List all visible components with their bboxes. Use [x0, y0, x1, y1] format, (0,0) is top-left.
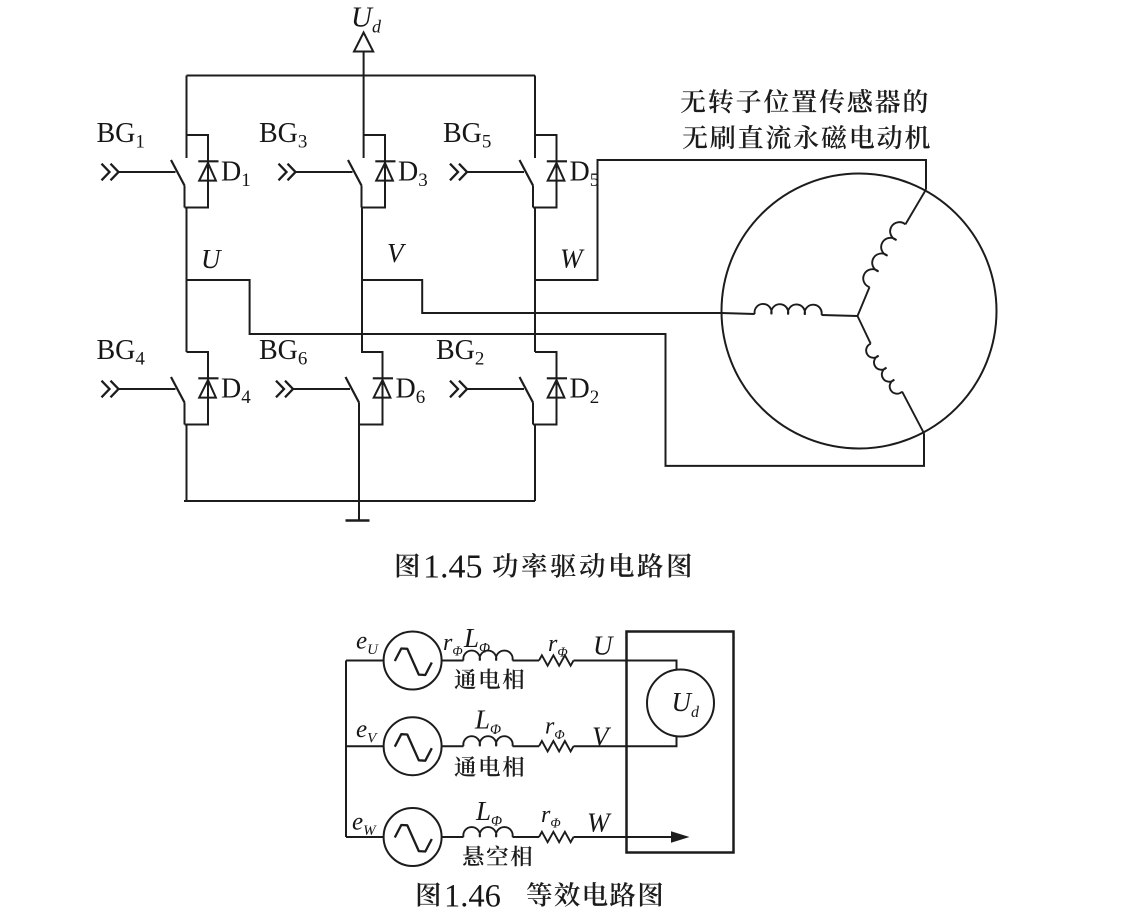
wire phase W from bridge to motor	[535, 160, 926, 280]
wire leg U upper (top rail to BG1)	[186, 76, 188, 159]
wire leg W middle, node W	[534, 208, 536, 353]
wire inductor to resistor W	[513, 836, 540, 838]
Ud input arrow (open triangle)	[354, 33, 373, 52]
gate drive chevron of BG3	[279, 164, 296, 181]
gate drive chevron of BG1	[102, 164, 119, 181]
transistor BG4 (switch-style symbol)	[171, 377, 185, 425]
wire bus to source eV	[346, 745, 384, 747]
wire bus to source eU	[346, 660, 384, 662]
wire U row into box to Ud	[574, 661, 677, 671]
diode D6	[373, 378, 393, 397]
wire source to inductor U	[442, 660, 464, 662]
diode D3	[375, 161, 395, 180]
DC source Ud circle	[647, 670, 714, 737]
wire leg U lower (BG4 to bottom rail)	[186, 425, 188, 502]
diode D2	[547, 378, 567, 397]
wire W row with arrow head	[574, 836, 674, 838]
ground symbol	[346, 519, 370, 521]
motor winding U (lower right)	[858, 316, 925, 433]
wire leg V middle, node V	[361, 208, 363, 353]
transistor BG1 (switch-style symbol)	[171, 160, 185, 208]
wire freewheel diode branch of BG5	[533, 135, 557, 208]
transistor BG2 (switch-style symbol)	[520, 377, 534, 425]
motor circle (brushless DC motor)	[722, 174, 997, 449]
wire leg W upper (top rail to BG5)	[534, 76, 536, 159]
AC source eU (circle with wave)	[384, 632, 442, 690]
wire bottom rail	[184, 500, 535, 502]
resistor r-phi U (zigzag)	[539, 655, 574, 665]
wire gate drive lead of BG6	[293, 388, 350, 390]
wire gate drive lead of BG4	[119, 388, 176, 390]
resistor r-phi W (zigzag)	[539, 832, 574, 842]
wire Ud down to rail and BG3	[363, 52, 365, 159]
wire gate drive lead of BG3	[296, 171, 353, 173]
wire source to inductor V	[442, 745, 464, 747]
svg-text:W: W	[587, 808, 612, 838]
caption figure 1.45	[397, 553, 419, 577]
diode D4	[198, 378, 218, 397]
text energized phase V row	[455, 756, 524, 777]
wire top DC rail	[187, 75, 536, 77]
text motor title line 1	[681, 89, 928, 113]
wire phase V from bridge to motor	[362, 280, 722, 313]
wire gate drive lead of BG2	[467, 388, 524, 390]
wire freewheel diode branch of BG2	[533, 352, 557, 425]
text floating phase W row	[463, 845, 532, 866]
wire inductor to resistor V	[513, 745, 540, 747]
wire source to inductor W	[442, 836, 464, 838]
AC source eW (circle with wave)	[384, 808, 442, 866]
AC source eV (circle with wave)	[384, 717, 442, 775]
transistor BG5 (switch-style symbol)	[520, 160, 534, 208]
transistor BG6 (switch-style symbol)	[346, 377, 360, 425]
diode D1	[198, 161, 218, 180]
wire freewheel diode branch of BG3	[362, 135, 386, 208]
text energized phase U row	[455, 668, 524, 689]
wire freewheel diode branch of BG4	[185, 352, 209, 425]
wire freewheel diode branch of BG1	[185, 135, 209, 208]
motor winding V (left horizontal)	[722, 304, 858, 316]
wire leg V lower (BG6 to bottom rail and ground)	[358, 425, 360, 522]
load box rectangle	[627, 632, 734, 853]
inductor L-phi V	[463, 736, 512, 746]
transistor BG3 (switch-style symbol)	[348, 160, 362, 208]
wire phase U from bridge to motor	[187, 280, 925, 466]
inductor L-phi W	[463, 827, 512, 837]
text motor title line 2	[683, 125, 930, 149]
inductor L-phi U	[463, 651, 512, 661]
resistor r-phi V (zigzag)	[539, 741, 574, 751]
diode D5	[547, 161, 567, 180]
gate drive chevron of BG4	[102, 381, 119, 398]
wire gate drive lead of BG1	[119, 171, 176, 173]
svg-text:W: W	[560, 244, 585, 274]
gate drive chevron of BG2	[450, 381, 467, 398]
wire V row into box to Ud	[574, 737, 677, 747]
wire leg W lower (BG2 to bottom rail)	[534, 425, 536, 502]
svg-text:1.46: 1.46	[444, 879, 501, 915]
caption figure 1.46	[418, 882, 440, 906]
svg-text:U: U	[201, 244, 222, 274]
wire leg U middle, node U	[186, 208, 188, 353]
wire gate drive lead of BG5	[467, 171, 524, 173]
svg-text:1.45: 1.45	[423, 549, 483, 586]
wire bus to source eW	[346, 836, 384, 838]
gate drive chevron of BG5	[450, 164, 467, 181]
wire left bus connecting sources	[345, 661, 347, 838]
wire inductor to resistor U	[513, 660, 540, 662]
gate drive chevron of BG6	[276, 381, 293, 398]
motor winding W (upper right)	[858, 190, 927, 317]
svg-text:U: U	[593, 631, 614, 661]
wire freewheel diode branch of BG6	[359, 352, 383, 425]
